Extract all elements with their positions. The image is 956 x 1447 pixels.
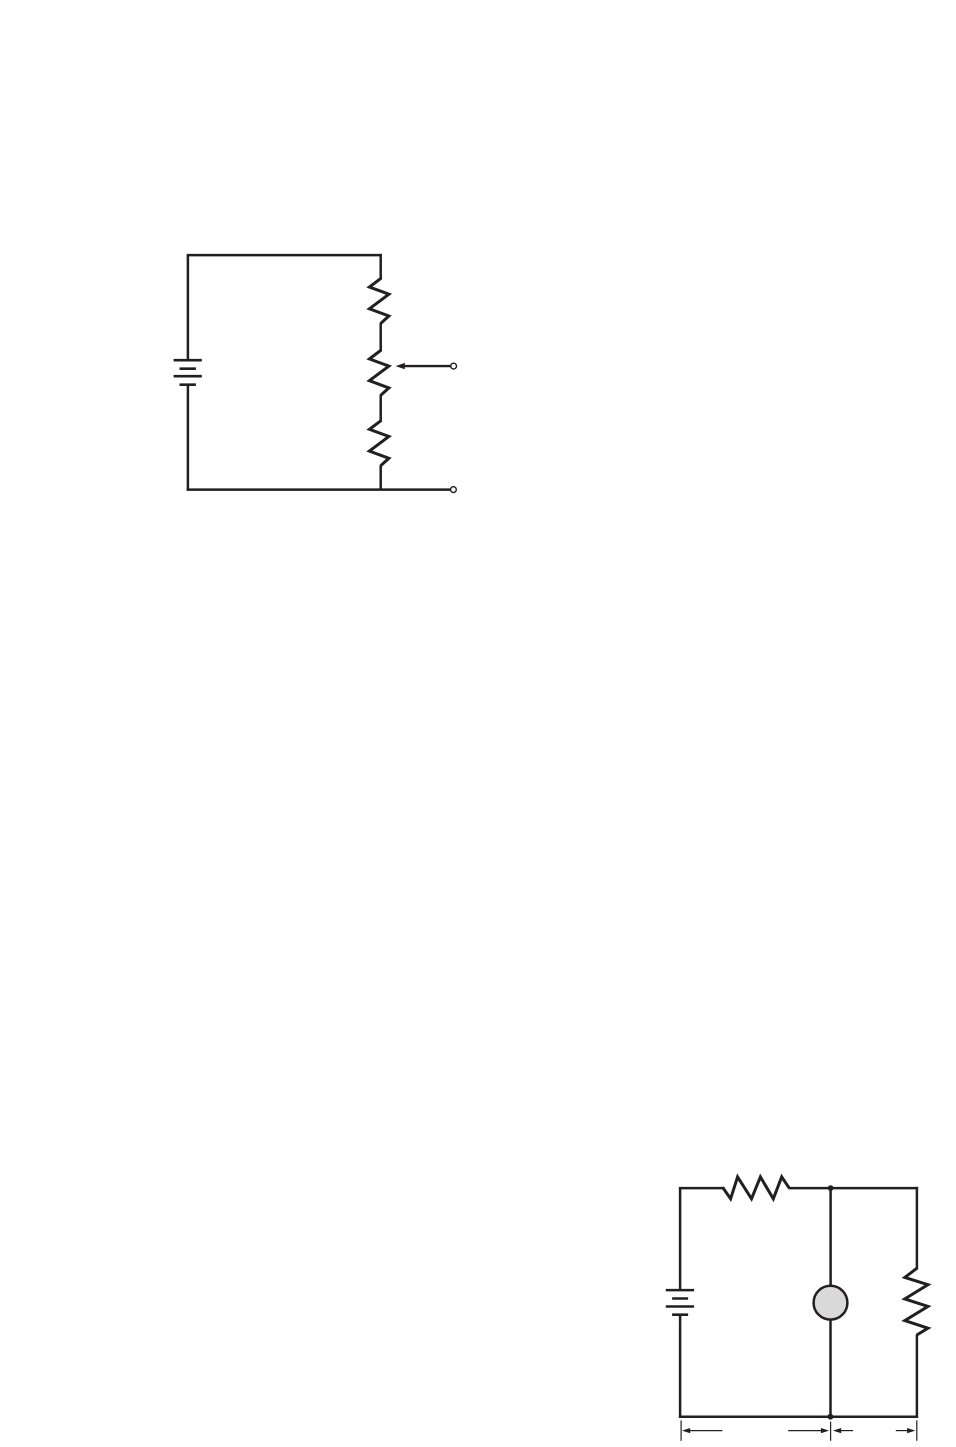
- resistor R3: [369, 421, 389, 466]
- wire: [788, 1187, 918, 1190]
- wire: [379, 323, 382, 351]
- wire: [679, 1187, 724, 1190]
- wire: [187, 255, 190, 359]
- dimension tick middle: [830, 1422, 832, 1441]
- wire: [379, 465, 382, 489]
- battery B1: [174, 360, 202, 385]
- junction dot: [828, 1414, 834, 1420]
- wire: [187, 254, 382, 257]
- wire: [679, 1316, 682, 1418]
- terminal (bottom output): [451, 487, 457, 493]
- dimension tick right: [916, 1420, 918, 1440]
- wire: [916, 1335, 919, 1418]
- resistor R4: [722, 1177, 789, 1199]
- battery B2: [666, 1290, 694, 1315]
- resistor R5: [905, 1268, 928, 1335]
- wire: [679, 1188, 682, 1289]
- dimension tick left: [680, 1420, 682, 1440]
- wire: [379, 254, 382, 279]
- wire: [829, 1321, 832, 1417]
- wire: [679, 1415, 918, 1418]
- wire: [187, 488, 451, 491]
- junction dot: [828, 1185, 834, 1191]
- wire: [916, 1187, 919, 1269]
- dimension arrow b (pointing right into middle tick): [788, 1428, 829, 1433]
- wire: [379, 395, 382, 421]
- dimension arrow c (pointing left into middle tick): [833, 1428, 853, 1433]
- potentiometer R2: [369, 350, 389, 395]
- terminal (wiper output): [451, 363, 457, 369]
- resistor R1: [369, 278, 389, 324]
- meter M1: [814, 1286, 848, 1320]
- dimension arrow a (left, pointing left): [682, 1428, 722, 1433]
- dimension arrow d (pointing right into right tick): [896, 1428, 916, 1433]
- wire: [829, 1188, 832, 1285]
- wiper arrow: [396, 363, 452, 369]
- wire: [187, 386, 190, 491]
